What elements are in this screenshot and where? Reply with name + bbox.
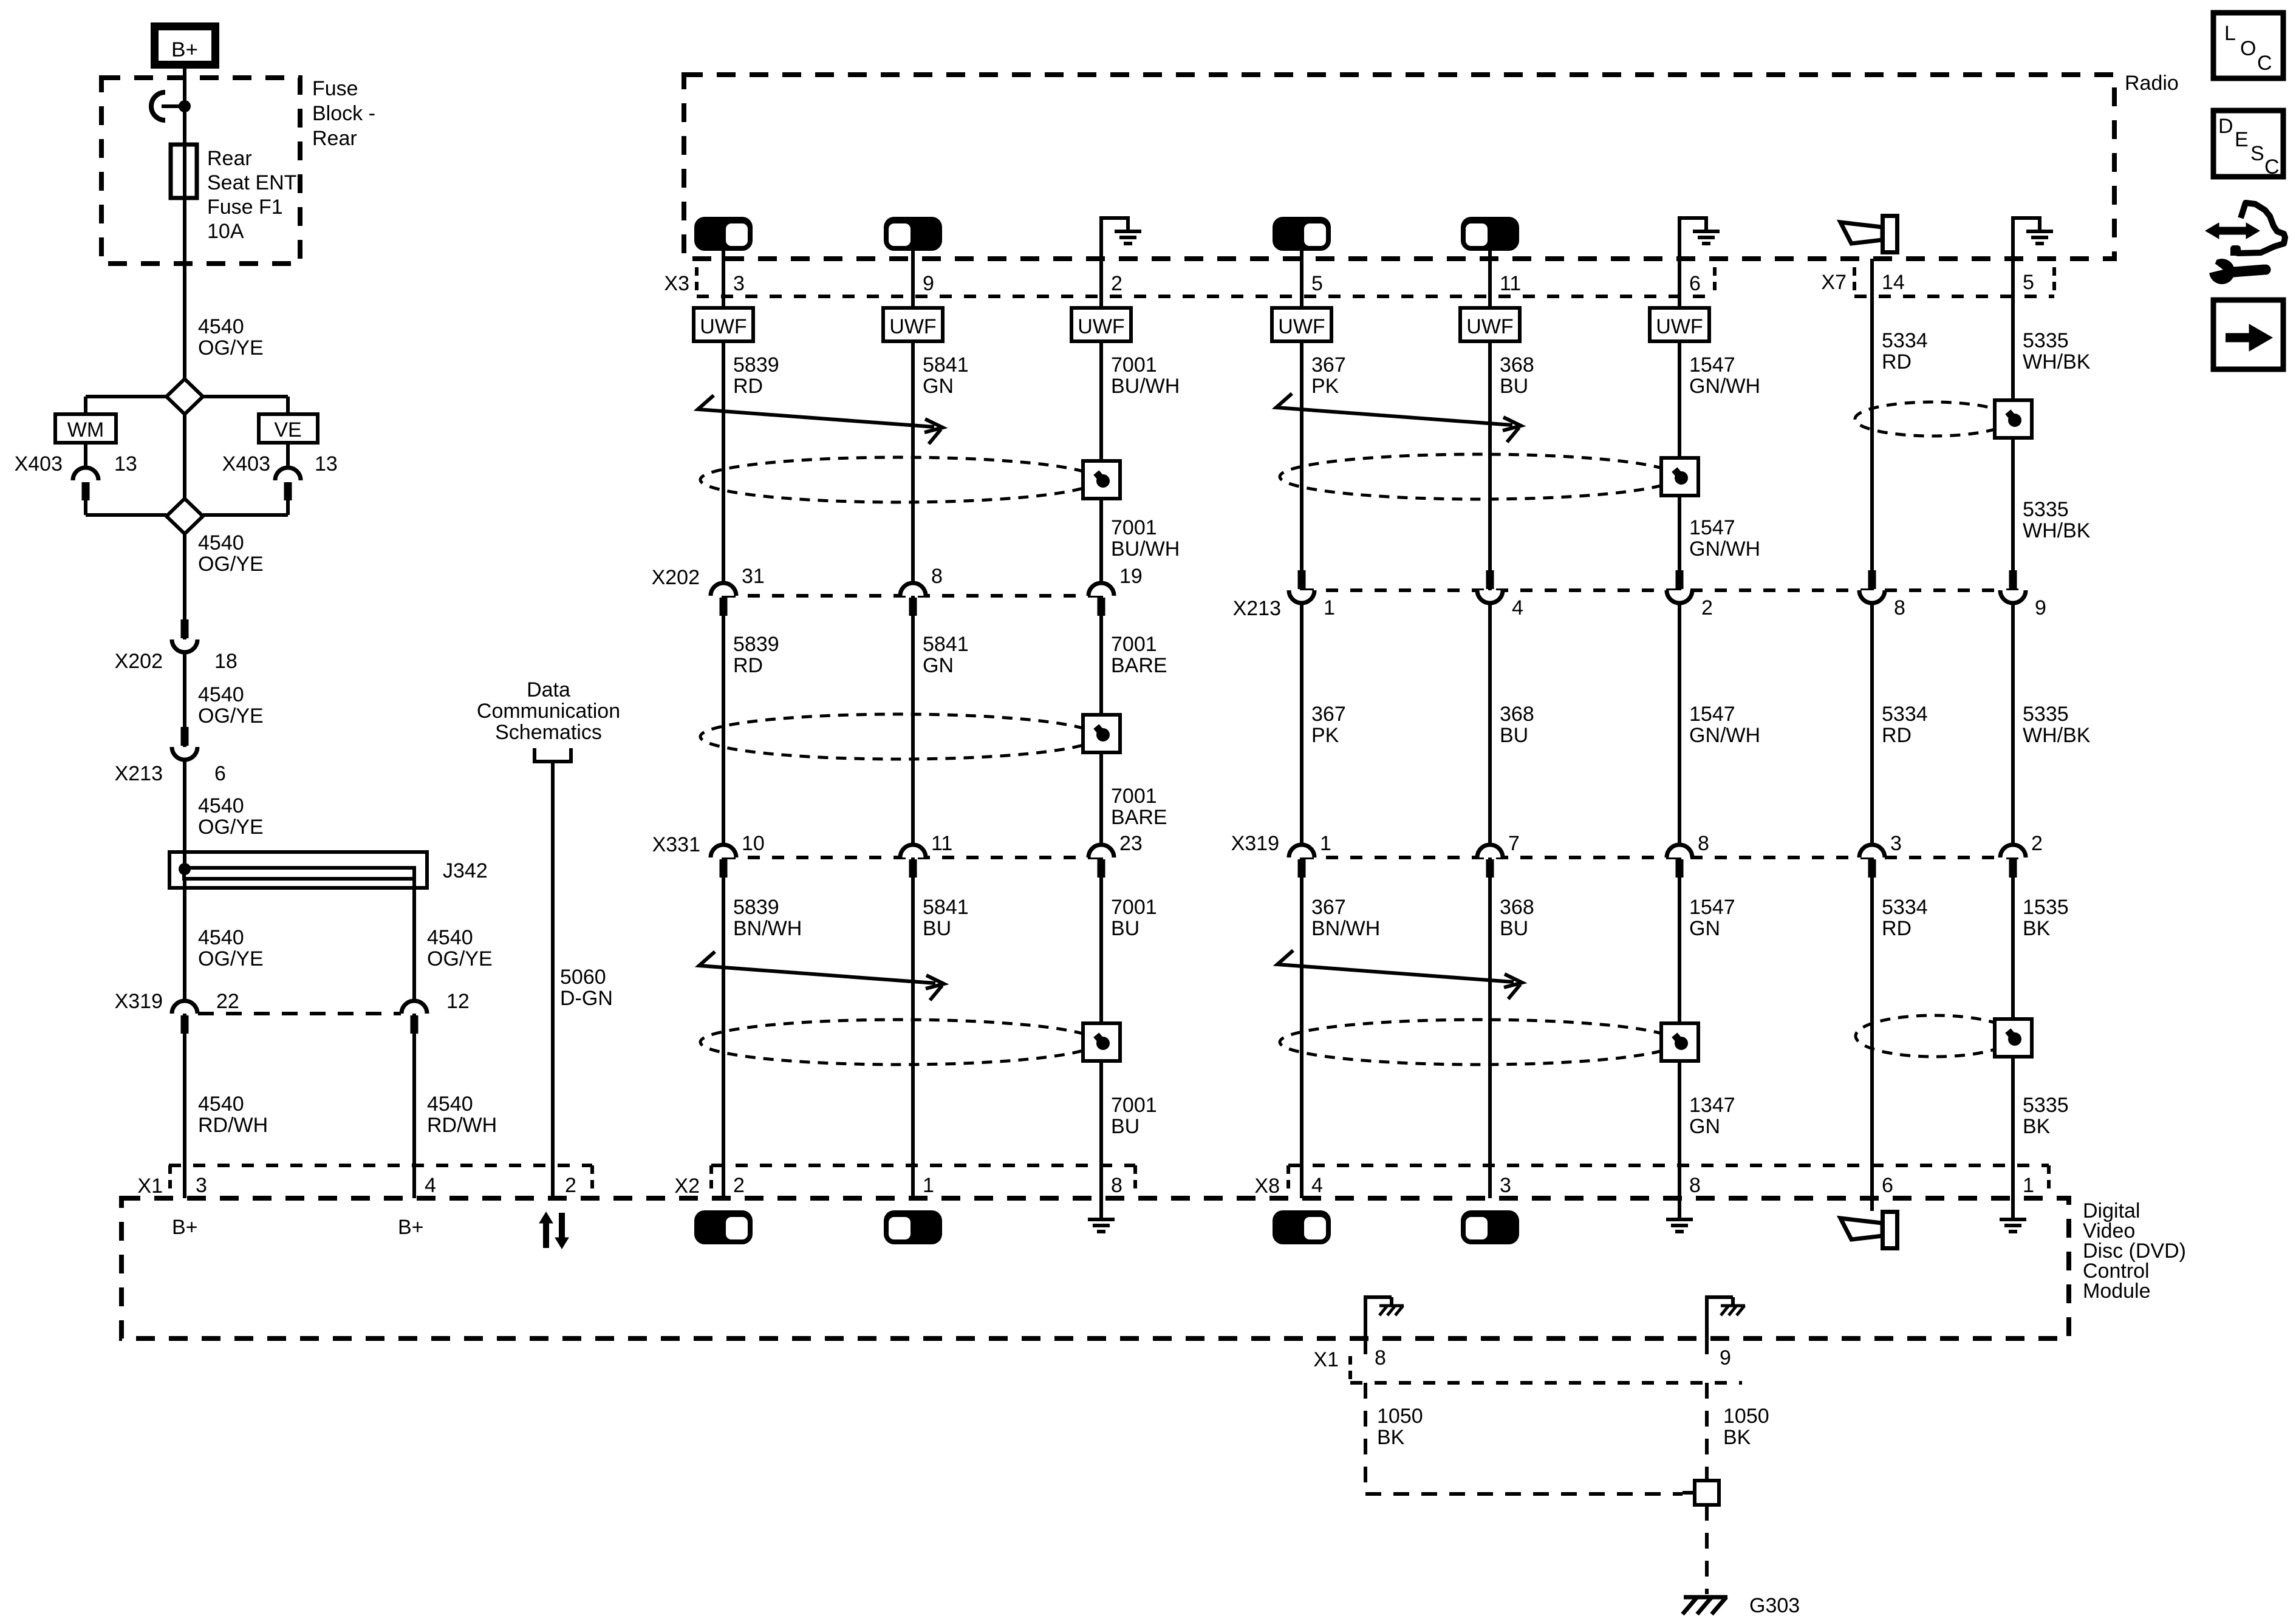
svg-text:368: 368 [1500, 353, 1534, 377]
connector X3 dashed line [697, 295, 1715, 298]
svg-text:1: 1 [923, 1174, 934, 1197]
UWF splice pack col6 [1650, 308, 1709, 341]
svg-text:UWF: UWF [1278, 315, 1325, 338]
connector X202 pin 8 col2 [900, 583, 926, 596]
svg-text:8: 8 [1375, 1346, 1386, 1369]
svg-text:Data: Data [527, 678, 570, 701]
drain shield terminal col6 [1661, 458, 1698, 496]
svg-text:BK: BK [1723, 1426, 1751, 1449]
wire column 4 [1300, 251, 1303, 1198]
connector X319 pin 8 col6 [1667, 845, 1692, 857]
ground symbol inside radio col3 [1099, 216, 1103, 261]
UWF splice pack col1 [694, 308, 753, 341]
svg-text:2: 2 [565, 1174, 576, 1197]
connector X331 pin 23 col3 [1088, 845, 1114, 857]
svg-text:BARE: BARE [1111, 654, 1167, 677]
svg-text:RD: RD [733, 654, 763, 677]
svg-text:Rear: Rear [207, 147, 252, 170]
wire column 1 [722, 251, 725, 1198]
UWF splice pack col2 [883, 308, 943, 341]
svg-text:7001: 7001 [1111, 516, 1157, 539]
svg-text:14: 14 [1882, 271, 1905, 294]
shield ellipse cols7-8 [1855, 402, 2011, 436]
svg-text:3: 3 [1500, 1174, 1511, 1197]
radio dashed box [684, 75, 2114, 259]
ground symbol DVD col8 [2000, 1218, 2026, 1221]
DESC reference box [2213, 111, 2283, 177]
svg-text:9: 9 [1720, 1346, 1731, 1369]
wire VE to X403 [286, 443, 290, 468]
svg-text:L: L [2224, 22, 2236, 45]
svg-text:X202: X202 [115, 650, 163, 673]
svg-text:X403: X403 [15, 452, 63, 476]
svg-text:GN: GN [1689, 917, 1720, 940]
svg-text:4: 4 [425, 1174, 436, 1197]
svg-text:4: 4 [1512, 596, 1523, 619]
svg-text:4540: 4540 [198, 926, 244, 949]
svg-text:8: 8 [1111, 1174, 1122, 1197]
svg-text:GN: GN [923, 375, 954, 398]
svg-text:5: 5 [2023, 271, 2034, 294]
svg-text:BN/WH: BN/WH [1311, 917, 1380, 940]
twisted-leads arrow cols4-5 [1276, 394, 1512, 425]
svg-text:GN: GN [1689, 1115, 1720, 1138]
wire column 3 [1099, 216, 1103, 1218]
connector X2 dashed line [711, 1164, 1135, 1167]
wire to G303 [1705, 1505, 1709, 1594]
svg-text:13: 13 [114, 452, 137, 476]
svg-text:RD: RD [733, 375, 763, 398]
svg-text:E: E [2235, 128, 2249, 151]
ground symbol DVD col3 [1088, 1218, 1115, 1221]
svg-text:7001: 7001 [1111, 633, 1157, 656]
svg-text:Fuse F1: Fuse F1 [207, 196, 283, 219]
shield ellipse cols1-3 lower [700, 1020, 1098, 1065]
drain shield terminal col3 lower [1083, 1023, 1120, 1061]
UWF splice pack col4 [1272, 308, 1331, 341]
wire column 8 [2011, 216, 2015, 1218]
svg-text:D: D [2218, 115, 2233, 138]
svg-text:12: 12 [446, 990, 470, 1013]
connector X202 dashed line [723, 594, 1101, 598]
fuse block internal bus hook + junction dot [151, 92, 165, 120]
twisted-leads arrow cols4-5 lower [1277, 950, 1514, 982]
component VE [259, 414, 318, 443]
vehicle outline icon [2233, 203, 2285, 256]
svg-text:3: 3 [1890, 832, 1902, 855]
svg-text:5841: 5841 [923, 896, 969, 919]
wire WM to X403 [84, 443, 87, 468]
connector X403 pin 13 (right) [275, 468, 301, 480]
UWF splice pack col5 [1460, 308, 1520, 341]
svg-text:1: 1 [2023, 1174, 2034, 1197]
splice S1 diamond [166, 379, 203, 414]
svg-text:X202: X202 [652, 566, 700, 589]
digital video disc (DVD) control module dashed box [121, 1198, 2069, 1338]
wire 5060 D-GN [551, 762, 555, 1198]
svg-text:WH/BK: WH/BK [2023, 350, 2091, 373]
ground symbol inside radio col6 [1678, 216, 1681, 261]
connector X202 pin 19 col3 [1088, 583, 1114, 596]
svg-text:6: 6 [1882, 1174, 1893, 1197]
connector X319 pin 2 col8 [2000, 845, 2026, 857]
twisted-pair terminal DVD col1 [694, 1210, 753, 1244]
connector X319 pins 22 / 12 dashed link [198, 1012, 401, 1015]
wire column 5 [1488, 251, 1492, 1198]
twisted-pair terminal radio col2 [884, 217, 942, 251]
svg-text:1050: 1050 [1723, 1405, 1769, 1428]
svg-text:D-GN: D-GN [560, 987, 613, 1010]
svg-text:7001: 7001 [1111, 896, 1157, 919]
wire below X403 left [84, 499, 87, 515]
svg-text:Rear: Rear [312, 127, 357, 150]
svg-text:OG/YE: OG/YE [198, 704, 264, 728]
svg-text:4: 4 [1311, 1174, 1323, 1197]
svg-text:1547: 1547 [1689, 516, 1735, 539]
svg-text:11: 11 [931, 832, 952, 855]
connector X319 pin 12 [401, 1001, 427, 1014]
svg-text:G303: G303 [1749, 1594, 1800, 1616]
connector X213 pin 8 col7 [1868, 570, 1876, 589]
svg-text:1547: 1547 [1689, 703, 1735, 726]
svg-text:1050: 1050 [1377, 1405, 1423, 1428]
svg-text:Schematics: Schematics [495, 721, 602, 744]
connector X331 pin 10 col1 [711, 845, 736, 857]
svg-text:O: O [2240, 37, 2256, 60]
svg-text:1: 1 [1324, 596, 1335, 619]
connector X1 dashed line (ground pins) [1350, 1381, 1742, 1385]
svg-text:X319: X319 [115, 990, 163, 1013]
svg-text:C: C [2257, 52, 2272, 75]
svg-text:2: 2 [2031, 832, 2043, 855]
svg-text:367: 367 [1311, 703, 1346, 726]
svg-text:RD/WH: RD/WH [427, 1114, 497, 1137]
svg-text:367: 367 [1311, 896, 1346, 919]
svg-text:9: 9 [2035, 596, 2046, 619]
svg-text:OG/YE: OG/YE [427, 947, 493, 970]
svg-text:5839: 5839 [733, 633, 779, 656]
svg-text:8: 8 [1698, 832, 1709, 855]
svg-text:BK: BK [2023, 917, 2051, 940]
svg-text:OG/YE: OG/YE [198, 553, 264, 576]
svg-text:5839: 5839 [733, 353, 779, 377]
svg-text:5335: 5335 [2023, 329, 2069, 352]
connector X1 dashed line (top of DVD module, left) [169, 1164, 592, 1167]
svg-text:X2: X2 [674, 1174, 700, 1198]
wire column 6 [1678, 216, 1681, 1218]
svg-text:VE: VE [274, 418, 301, 442]
svg-text:B+: B+ [172, 1216, 198, 1239]
svg-text:UWF: UWF [700, 315, 747, 338]
svg-text:X213: X213 [115, 762, 163, 785]
twisted-pair terminal DVD col2 [884, 1210, 942, 1244]
svg-text:J342: J342 [443, 859, 488, 882]
svg-text:PK: PK [1311, 724, 1339, 747]
connector X213 pin 4 col5 [1486, 570, 1494, 589]
svg-text:B+: B+ [398, 1216, 424, 1239]
connector X202 pin 31 col1 [711, 583, 736, 596]
twisted-pair terminal DVD col4 [1273, 1210, 1331, 1244]
wrench icon [2209, 259, 2235, 284]
svg-text:367: 367 [1311, 353, 1346, 377]
wire J342 right leg down [412, 879, 416, 1198]
svg-text:19: 19 [1119, 565, 1143, 588]
connector X331 dashed line [723, 856, 1101, 859]
drain shield terminal col8 lower [1995, 1019, 2032, 1057]
twisted-pair terminal radio col5 [1461, 217, 1519, 251]
ground symbol DVD col6 [1666, 1218, 1693, 1221]
svg-text:1547: 1547 [1689, 896, 1735, 919]
svg-text:5841: 5841 [923, 353, 969, 377]
svg-text:5841: 5841 [923, 633, 969, 656]
speaker symbol inside radio col7 [1840, 222, 1882, 244]
svg-text:9: 9 [923, 272, 934, 295]
ground G303 [1684, 1595, 1727, 1600]
svg-text:RD/WH: RD/WH [198, 1114, 268, 1137]
UWF splice pack col3 [1071, 308, 1131, 341]
svg-text:PK: PK [1311, 375, 1339, 398]
svg-text:UWF: UWF [889, 315, 936, 338]
svg-text:X403: X403 [222, 452, 270, 476]
connector X213 pin 2 col6 [1676, 570, 1684, 589]
svg-text:1347: 1347 [1689, 1094, 1735, 1117]
svg-text:BU: BU [1111, 917, 1139, 940]
svg-text:Block -: Block - [312, 102, 375, 125]
svg-text:6: 6 [1689, 272, 1701, 295]
ground symbol inside radio col8 [2011, 216, 2015, 261]
wire 1050 BK (pin 8, other-harness dashed) [1364, 1383, 1367, 1494]
svg-text:BU/WH: BU/WH [1111, 537, 1180, 561]
connector X7 dashed line [1854, 295, 2054, 298]
svg-text:2: 2 [733, 1174, 745, 1197]
connector X403 pin 13 (left) [73, 468, 98, 480]
svg-text:GN/WH: GN/WH [1689, 375, 1760, 398]
svg-text:X1: X1 [137, 1174, 163, 1198]
svg-text:Seat ENT: Seat ENT [207, 171, 296, 194]
svg-text:UWF: UWF [1656, 315, 1703, 338]
svg-text:4540: 4540 [198, 315, 244, 338]
svg-text:BU: BU [1500, 724, 1528, 747]
shield ellipse cols4-6 [1280, 454, 1677, 499]
svg-text:4540: 4540 [198, 1093, 244, 1116]
svg-text:C: C [2264, 155, 2280, 179]
svg-text:4540: 4540 [427, 1093, 473, 1116]
connector X8 dashed line [1288, 1164, 2049, 1167]
connector X213 pin 1 col4 [1298, 570, 1306, 589]
svg-text:GN: GN [923, 654, 954, 677]
twisted-leads arrow cols1-2 lower [699, 952, 935, 983]
svg-text:5335: 5335 [2023, 498, 2069, 521]
svg-text:WM: WM [67, 418, 104, 442]
svg-text:X1: X1 [1313, 1348, 1339, 1371]
connector X319 pin 1 col4 [1289, 845, 1314, 857]
svg-text:10A: 10A [207, 220, 244, 243]
shield ellipse cols4-6 lower [1280, 1020, 1677, 1065]
fuse F1 Rear Seat ENT 10A [171, 145, 197, 198]
svg-text:5334: 5334 [1882, 896, 1928, 919]
svg-text:10: 10 [742, 832, 765, 855]
wire to WM [86, 395, 166, 398]
connector X319 pin 3 col7 [1859, 845, 1885, 857]
svg-text:5335: 5335 [2023, 1094, 2069, 1117]
junction block J342 [169, 852, 427, 888]
shield ellipse cols7-8 lower [1856, 1015, 2014, 1057]
wire B+ feed down through fuse block [183, 69, 186, 379]
svg-text:4540: 4540 [198, 794, 244, 817]
connector X213 pin 6 [181, 727, 189, 746]
svg-text:368: 368 [1500, 896, 1534, 919]
svg-text:OG/YE: OG/YE [198, 336, 264, 360]
svg-text:5060: 5060 [560, 966, 606, 989]
svg-text:BU: BU [923, 917, 951, 940]
twisted-pair terminal radio col1 [694, 217, 753, 251]
svg-text:B+: B+ [171, 38, 198, 61]
svg-text:X213: X213 [1233, 597, 1281, 620]
fuse block - rear dashed box [101, 78, 300, 264]
svg-text:GN/WH: GN/WH [1689, 724, 1760, 747]
LOC reference box [2213, 13, 2283, 78]
svg-text:WH/BK: WH/BK [2023, 519, 2091, 542]
svg-text:RD: RD [1882, 917, 1912, 940]
shield ellipse cols1-3 mid [700, 714, 1098, 759]
connector X213 dashed line [1302, 588, 2028, 592]
svg-text:5334: 5334 [1882, 703, 1928, 726]
svg-text:GN/WH: GN/WH [1689, 537, 1760, 561]
connector X331 pin 11 col2 [900, 845, 926, 857]
svg-text:OG/YE: OG/YE [198, 816, 264, 839]
svg-text:11: 11 [1500, 272, 1521, 295]
drain shield terminal col3 [1083, 461, 1120, 499]
svg-text:BU: BU [1500, 375, 1528, 398]
svg-text:1547: 1547 [1689, 353, 1735, 377]
speaker symbol DVD col7 [1840, 1218, 1882, 1239]
wire column 7 [1870, 259, 1874, 1211]
svg-text:7001: 7001 [1111, 785, 1157, 808]
svg-text:7: 7 [1508, 832, 1520, 855]
bracket under note [535, 748, 571, 762]
svg-text:X331: X331 [652, 833, 700, 856]
svg-text:BN/WH: BN/WH [733, 917, 802, 940]
splice S303 box [1683, 1491, 1695, 1495]
double arrow icon [2216, 227, 2249, 235]
svg-text:UWF: UWF [1466, 315, 1513, 338]
svg-text:BU/WH: BU/WH [1111, 375, 1180, 398]
svg-text:18: 18 [214, 650, 237, 673]
twisted-pair terminal radio col4 [1273, 217, 1331, 251]
svg-text:WH/BK: WH/BK [2023, 724, 2091, 747]
svg-text:Module: Module [2083, 1280, 2151, 1303]
splice S2 diamond [166, 499, 203, 534]
connector X213 pin 9 col8 [2009, 570, 2017, 589]
svg-text:BU: BU [1500, 917, 1528, 940]
ground lead G1 hook + chassis ground [1364, 1297, 1367, 1354]
twisted-leads arrow cols1-2 [698, 395, 934, 427]
svg-text:5334: 5334 [1882, 329, 1928, 352]
svg-text:3: 3 [733, 272, 745, 295]
svg-text:X8: X8 [1254, 1174, 1280, 1198]
svg-text:S: S [2250, 142, 2264, 165]
svg-text:BK: BK [1377, 1426, 1405, 1449]
svg-text:8: 8 [931, 565, 943, 588]
svg-text:7001: 7001 [1111, 1094, 1157, 1117]
svg-text:22: 22 [216, 990, 239, 1013]
svg-text:RD: RD [1882, 350, 1912, 373]
drain shield terminal col6 lower [1661, 1023, 1698, 1061]
svg-text:Fuse: Fuse [312, 77, 358, 100]
connector X202 pin 18 [181, 619, 189, 638]
drain shield terminal col3 mid [1083, 715, 1120, 752]
wire column 2 [911, 251, 915, 1198]
twisted-pair terminal DVD col5 [1461, 1210, 1519, 1244]
svg-text:1: 1 [1320, 832, 1331, 855]
svg-text:5839: 5839 [733, 896, 779, 919]
svg-text:BARE: BARE [1111, 806, 1167, 829]
svg-text:3: 3 [196, 1174, 207, 1197]
svg-text:5: 5 [1311, 272, 1323, 295]
svg-text:4540: 4540 [427, 926, 473, 949]
wire through splice S2 [183, 414, 186, 499]
svg-text:X3: X3 [664, 272, 689, 295]
svg-text:BK: BK [2023, 1115, 2051, 1138]
svg-text:8: 8 [1689, 1174, 1701, 1197]
svg-text:BU: BU [1111, 1115, 1139, 1138]
svg-text:RD: RD [1882, 724, 1912, 747]
svg-text:OG/YE: OG/YE [198, 947, 264, 970]
svg-text:X7: X7 [1821, 271, 1847, 294]
drain shield terminal col8 [1995, 400, 2032, 438]
data in/out arrows symbol [543, 1222, 549, 1248]
wire to VE [203, 395, 288, 398]
svg-text:UWF: UWF [1078, 315, 1124, 338]
connector X319 pin 7 col5 [1477, 845, 1503, 857]
svg-text:X319: X319 [1231, 832, 1279, 855]
connector X319 pin 22 [172, 1001, 197, 1014]
svg-text:2: 2 [1111, 272, 1122, 295]
wire main feed down [183, 534, 186, 1198]
svg-text:23: 23 [1119, 832, 1143, 855]
svg-text:4540: 4540 [198, 683, 244, 706]
svg-text:31: 31 [742, 565, 765, 588]
connector X319 dashed line (right) [1302, 856, 2028, 859]
shield ellipse cols1-3 [700, 457, 1098, 502]
forward arrow box [2213, 300, 2283, 369]
svg-text:Radio: Radio [2125, 72, 2179, 95]
svg-text:5335: 5335 [2023, 703, 2069, 726]
svg-text:Communication: Communication [477, 700, 620, 723]
node B+ battery feed box [155, 27, 216, 65]
svg-text:4540: 4540 [198, 531, 244, 554]
wire 1050 BK (pin 9, other-harness dashed) [1705, 1383, 1709, 1481]
svg-text:2: 2 [1701, 596, 1713, 619]
component WM [55, 414, 116, 443]
wire below X403 right [286, 499, 290, 515]
svg-text:1535: 1535 [2023, 896, 2069, 919]
svg-text:6: 6 [214, 762, 226, 785]
svg-text:13: 13 [315, 452, 338, 476]
svg-text:368: 368 [1500, 703, 1534, 726]
svg-text:7001: 7001 [1111, 353, 1157, 377]
svg-text:8: 8 [1894, 596, 1905, 619]
ground lead G2 hook + chassis ground [1705, 1297, 1709, 1354]
